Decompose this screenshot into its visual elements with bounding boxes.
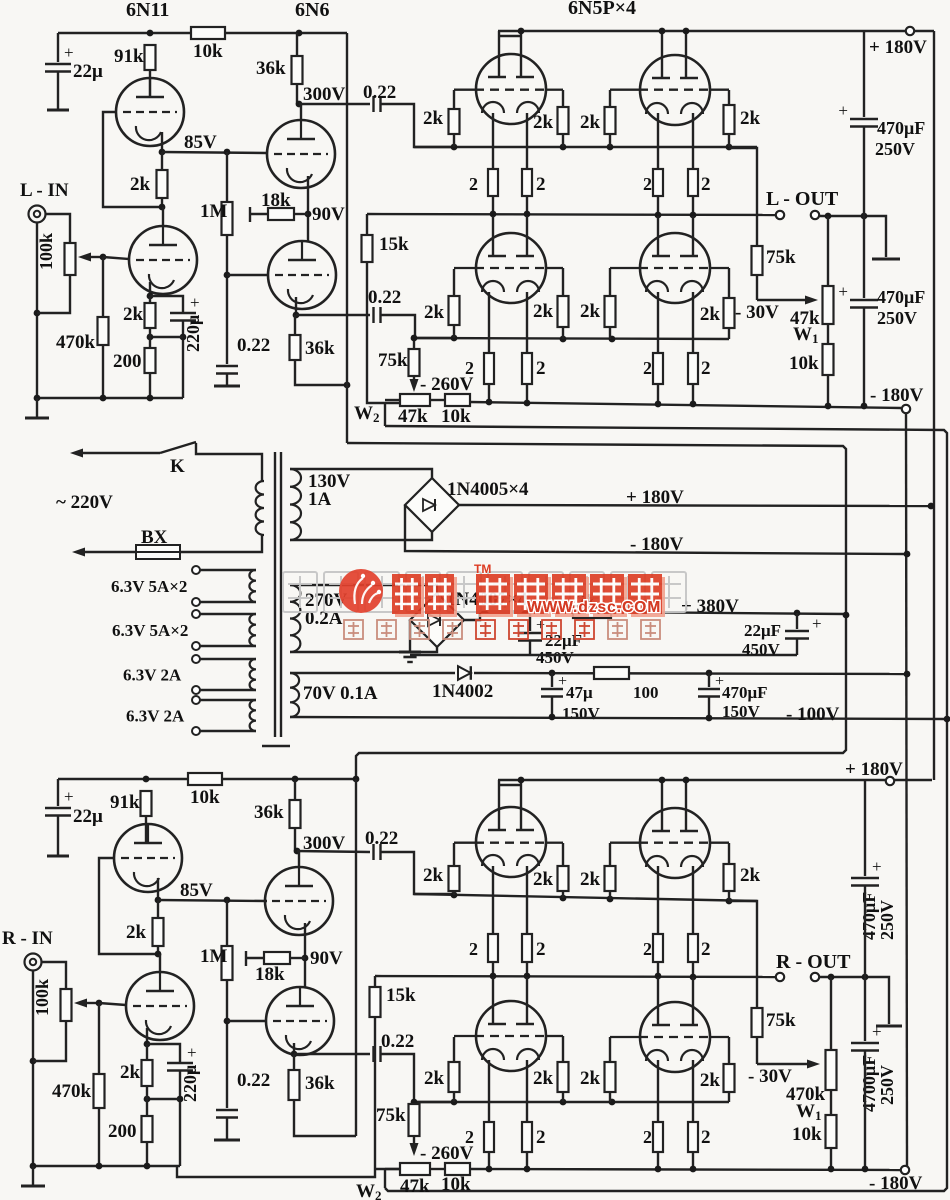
wire g3b (609, 134, 611, 147)
node Rg3/bus (607, 896, 614, 903)
wire L 36k1 bot (296, 84, 298, 104)
wire L gnd stem (36, 398, 38, 417)
wire bridge2 - out (409, 620, 411, 651)
svg-text:0.22: 0.22 (363, 82, 396, 103)
node Rg1/bus (451, 892, 458, 899)
winding filament 6.3V 2A (250, 700, 256, 731)
R W2 wiper arrow (413, 1136, 415, 1147)
svg-text:+: + (872, 1022, 882, 1041)
resistor R 18k L (268, 208, 294, 220)
terminal filament 6.3V 5A×2 (192, 566, 200, 574)
terminal filament 6.3V 2A (192, 655, 200, 663)
wire R cap1 top lead (864, 780, 866, 876)
resistor R 2k g3 L (605, 107, 616, 134)
wire RV4 grid left corner (609, 1037, 611, 1062)
svg-text:10k: 10k (792, 1124, 822, 1145)
terminal L-OUT b (811, 211, 819, 219)
svg-text:22μF: 22μF (744, 621, 781, 640)
svg-text:22μ: 22μ (73, 61, 103, 82)
wire R 36k2 top (293, 1054, 295, 1070)
svg-text:1N4002: 1N4002 (432, 681, 493, 702)
terminal L-OUT a (776, 211, 784, 219)
wire R grid bus upper (414, 894, 757, 901)
terminal R-OUT a (776, 973, 784, 981)
wire L 75k left top (413, 338, 415, 349)
svg-text:75k: 75k (376, 1105, 406, 1126)
resistor R 2k g2b L (558, 296, 569, 327)
resistor R 2 Rb x693 (688, 1122, 698, 1152)
wire fil bot 6.3V 5A×2 (200, 645, 256, 647)
wire L cap2 top lead (863, 216, 865, 298)
wire fil top 6.3V 2A (200, 699, 256, 701)
wire 270V top loop (290, 585, 437, 593)
wire R 36k1 top (294, 779, 296, 800)
wire L 2k2 top (149, 296, 151, 303)
node c1/bus (490, 211, 497, 218)
wire psu 47u top (551, 673, 553, 687)
resistor R 10k R (188, 773, 222, 785)
svg-text:47k: 47k (398, 406, 428, 427)
resistor POT 100k L (65, 243, 76, 275)
resistor R 2 Rb x527 (522, 1122, 532, 1152)
capacitor C 22u R (45, 807, 71, 810)
wire V3 plate lead x527 (526, 216, 528, 256)
svg-text:10k: 10k (190, 787, 220, 808)
node L gnd/jack (34, 395, 41, 402)
node R rail/feed (353, 776, 360, 783)
svg-text:470k: 470k (52, 1081, 92, 1102)
wire RV3 plate lead x493 (492, 977, 494, 1024)
wire psu cap2 bot (796, 639, 798, 655)
wire L cap2 bot lead (863, 308, 865, 406)
node Rrail/V1 (518, 777, 525, 784)
svg-text:1M: 1M (200, 946, 228, 967)
svg-text:47μ: 47μ (566, 683, 593, 702)
wire R 1M top (226, 900, 228, 946)
node g3b/bus (609, 336, 616, 343)
capacitor C 0.22 L gnd (216, 365, 238, 368)
resistor R 2k g1 R (449, 866, 460, 891)
wire R 2k2-200 node (147, 1098, 180, 1100)
svg-text:- 30V: - 30V (735, 302, 779, 323)
node L gnd/200 (147, 395, 154, 402)
wire RV2 grid left corner (609, 843, 611, 866)
wire L cap1 bot lead (863, 127, 865, 216)
wire g4b (728, 134, 730, 147)
node w2/2ohm3 (655, 401, 662, 408)
wire L 2k2 bot (149, 328, 151, 348)
node Rrail/V2a (659, 777, 666, 784)
svg-text:R - OUT: R - OUT (776, 951, 851, 973)
resistor R 2 Lb x527 (522, 353, 532, 384)
power tube V4 R lower-right (640, 1002, 710, 1072)
wire R gnd stem (32, 1166, 34, 1185)
wire RV2 grid right corner (728, 843, 730, 864)
wire L jack to pot (45, 214, 70, 243)
wire RV3 grid right corner (562, 1036, 564, 1062)
wire Rg2b bot (562, 1092, 564, 1102)
node L 6N6b cath node (293, 312, 300, 319)
node g2b/bus (560, 336, 567, 343)
svg-text:2k: 2k (126, 922, 147, 943)
svg-text:6N5P×4: 6N5P×4 (568, 0, 636, 19)
wire Rg4b bot (728, 1092, 730, 1102)
svg-text:2k: 2k (580, 869, 601, 890)
wire RV cath lead x493 (492, 866, 494, 934)
resistor R 2 R x693 (688, 934, 698, 962)
input jack L-IN (29, 206, 46, 223)
watermark gray company text (283, 572, 317, 612)
wire V3 grid left corner (453, 269, 455, 296)
capacitor C 22uF 450V b (785, 630, 809, 633)
terminal L +180V (906, 27, 914, 35)
wire g3b bot (609, 327, 611, 339)
node couple2/75k (411, 335, 418, 342)
node Rc1/bus (490, 973, 497, 980)
wire R 6N6a plate (298, 851, 300, 867)
wire 130V bot loop (290, 532, 432, 540)
wire R cap1 bot lead (864, 886, 866, 977)
wire R cap2 bot lead (864, 1051, 866, 1169)
wire fil top 6.3V 5A×2 (200, 569, 256, 571)
wire R 22u top lead (57, 779, 59, 806)
wire L 10k bot (827, 375, 829, 406)
tube U 6N6b R (266, 987, 334, 1055)
node -100/lineA (944, 716, 950, 723)
svg-text:2k: 2k (580, 301, 601, 322)
wire K to primary (196, 443, 262, 481)
wire psu cap1 top (529, 612, 531, 631)
wire g2b (562, 134, 564, 147)
node -180/drop (904, 551, 911, 558)
svg-text:2: 2 (643, 358, 652, 378)
wire RV cath bot x527 (526, 962, 528, 977)
node 1M tap R (224, 897, 231, 904)
ground L 22u (47, 109, 69, 112)
ground psu (399, 651, 421, 654)
wire L 18k wire (250, 213, 268, 215)
wire g4b bot (728, 328, 730, 339)
svg-text:2k: 2k (123, 304, 144, 325)
terminal R -180V (901, 1166, 909, 1174)
wire L 200 bot (149, 373, 151, 398)
wire RV34 cath lead x693 (692, 1060, 694, 1122)
wire L 0.22gnd bot (226, 374, 228, 386)
power tube V1 R upper-left (476, 807, 546, 877)
svg-text:+: + (838, 282, 848, 301)
svg-text:+: + (190, 293, 200, 312)
node -100/470u (706, 715, 713, 722)
potentiometer W2 L 47k (400, 394, 430, 406)
wire Rg2 bot (562, 891, 564, 898)
wire g1b bot (453, 325, 455, 338)
wire L wiper to grid (103, 257, 129, 259)
node L gnd/470k (100, 395, 107, 402)
wire R 6N6b grid wire (227, 1020, 266, 1022)
svg-text:90V: 90V (312, 204, 345, 225)
ground L 0.22 (214, 385, 240, 388)
node c4/bus (690, 212, 697, 219)
wire R 2k2 bot (146, 1086, 148, 1116)
node L rail/36k (296, 30, 303, 37)
node bus/10k (825, 403, 832, 410)
wire L grid bus upper (414, 146, 757, 148)
wire -180V drop to R channel (906, 413, 907, 1166)
bridge rectifier 1N4005x4 (405, 478, 459, 532)
wire R 0.22gnd bot (226, 1118, 228, 1140)
capacitor C 0.22 L couple1 (372, 96, 374, 112)
svg-text:470μF: 470μF (877, 118, 925, 138)
wire L 300V coupling (299, 103, 370, 105)
node g1/bus (451, 144, 458, 151)
wire RV2 right plate lead (685, 780, 687, 831)
resistor R 2k g1b L (449, 296, 460, 325)
transformer core (274, 452, 276, 737)
node boost/-180drop (904, 671, 911, 678)
wire V2 grid right corner (728, 90, 730, 105)
wire R 36k2 bot (294, 1100, 356, 1136)
wire L W1 top (827, 216, 829, 286)
wire R 22u bot lead (57, 816, 59, 856)
svg-text:+ 380V: + 380V (681, 596, 739, 617)
svg-text:~ 220V: ~ 220V (56, 492, 113, 513)
svg-text:2k: 2k (580, 112, 601, 133)
core end bar (262, 745, 290, 747)
wire RV cath bot x493 (492, 962, 494, 977)
svg-text:470μF: 470μF (722, 683, 768, 702)
resistor R 470k L (98, 317, 109, 345)
wire L 6N6b grid wire (227, 274, 268, 276)
wire L grid bus lower (415, 338, 729, 339)
svg-text:450V: 450V (536, 648, 575, 667)
wire R B+ rail (58, 778, 356, 780)
wire R 200 bot (146, 1142, 148, 1166)
wire R 15k top (374, 976, 376, 987)
wire V cath lead x658 (657, 113, 659, 169)
node L 1M/6N6b grid (224, 272, 231, 279)
wire L 75k to wiper (756, 275, 758, 300)
svg-text:+: + (872, 857, 882, 876)
resistor R 75k L right (752, 246, 763, 275)
node rail/V2a (659, 28, 666, 35)
resistor R 2 Lb x693 (688, 353, 698, 384)
svg-text:2: 2 (536, 1127, 546, 1148)
wire L 220u bot (182, 321, 184, 398)
wire RV1 left plate lead (498, 780, 500, 830)
watermark slogan row (344, 620, 363, 639)
node 300V R (294, 848, 301, 855)
wire V34 cath bot x693 (692, 384, 694, 403)
svg-text:0.22: 0.22 (368, 287, 401, 308)
wire V4 grid right corner (728, 268, 730, 298)
power tube V2 R upper-right (640, 808, 710, 878)
resistor R 36k R1 (290, 800, 301, 828)
wire RV cath bot x693 (692, 962, 694, 977)
node Rw2/2ohm2 (524, 1166, 531, 1173)
wire L gnd bus (37, 397, 183, 399)
wire L out bus right (819, 216, 886, 257)
wire R 10k bot (830, 1148, 832, 1169)
wire R couple2 wire (294, 1053, 370, 1055)
svg-text:2k: 2k (424, 1068, 445, 1089)
svg-text:250V: 250V (877, 308, 917, 328)
wire V34 cath lead x658 (657, 292, 659, 353)
node L potbot/jack (34, 310, 41, 317)
ground R 0.22 (214, 1139, 240, 1142)
wire RV34 cath bot x693 (692, 1152, 694, 1169)
wire R pot bottom (33, 1021, 66, 1061)
svg-text:2k: 2k (740, 865, 761, 886)
node R potbot/jack (30, 1058, 37, 1065)
node g1b/bus (451, 335, 458, 342)
wire L 6N6b cath (295, 297, 297, 315)
svg-text:2k: 2k (130, 174, 151, 195)
wire V2 left plate lead (661, 31, 663, 78)
svg-text:2: 2 (469, 174, 478, 194)
watermark red title characters (392, 574, 424, 617)
wire R 470k bot (98, 1108, 100, 1166)
wire V1 plate jog (499, 35, 521, 37)
node Rbus/W1 (828, 974, 835, 981)
resistor R 2k R cath2 (142, 1060, 153, 1086)
wire R 6N6a cath (304, 923, 306, 958)
wire RV1 grid left corner (453, 843, 455, 866)
resistor R 10k L W2 (445, 394, 470, 406)
wire L 90V drop (307, 214, 309, 241)
resistor R 2 R x658 (653, 934, 663, 962)
terminal R-OUT b (811, 973, 819, 981)
svg-text:250V: 250V (877, 1065, 897, 1105)
svg-text:+: + (812, 614, 822, 633)
svg-text:75k: 75k (766, 1010, 796, 1031)
wire RV3 plate lead x527 (526, 977, 528, 1024)
tube U 6N11b R (126, 972, 194, 1040)
svg-text:K: K (170, 456, 185, 477)
wire psu cap1 bot (529, 641, 531, 655)
svg-text:90V: 90V (310, 948, 343, 969)
svg-text:L - OUT: L - OUT (766, 188, 839, 210)
resistor R 2k g4 L (724, 105, 735, 134)
wire R 2k1 bot (157, 946, 159, 954)
input jack R-IN (25, 954, 42, 971)
wire R W1 bot (830, 1090, 832, 1115)
svg-text:+: + (64, 787, 74, 806)
svg-text:2: 2 (536, 358, 546, 379)
resistor R 2k L cath1 (157, 170, 168, 198)
wire L 2k1 leads (161, 152, 163, 170)
L W1 wiper arrow (757, 299, 809, 301)
wire V34 cath bot x489 (488, 384, 490, 403)
fuse BX (136, 545, 180, 559)
resistor R 75k L left (409, 349, 420, 376)
resistor R 2k psu (573, 606, 611, 618)
wire R -180 bus (470, 1169, 901, 1170)
node Rc4/bus (690, 974, 697, 981)
wire L 6N6a cath (307, 176, 309, 214)
wire L -180 bus (470, 402, 901, 408)
resistor POT 47k W1 L (823, 286, 834, 324)
node Rg1b/bus (451, 1099, 458, 1106)
wire L couple1 out (381, 104, 453, 147)
bridge rectifier 1N4007x4 (410, 593, 464, 647)
svg-text:47k: 47k (400, 1176, 430, 1197)
wire fil bot 6.3V 2A (200, 689, 256, 691)
switch K (160, 442, 196, 453)
capacitor C 470uF 150V (698, 688, 720, 691)
wire V34 cath lead x527 (526, 292, 528, 353)
wire line B (+380V riser) (347, 443, 846, 779)
svg-text:+: + (187, 1043, 197, 1062)
resistor R 10k L W1 (823, 344, 834, 375)
node Rw2/2ohm1 (486, 1166, 493, 1173)
node rail/V2b (683, 28, 690, 35)
resistor R 2 Rb x658 (653, 1122, 663, 1152)
node 1M tap L (224, 149, 231, 156)
wire RV cath lead x527 (526, 866, 528, 934)
node Rg2/bus (560, 895, 567, 902)
svg-text:L - IN: L - IN (20, 180, 69, 201)
grid stopper bar L 18k (249, 207, 251, 222)
ground L out (872, 258, 900, 261)
svg-text:70V 0.1A: 70V 0.1A (303, 683, 378, 704)
node bus/cap (861, 213, 868, 220)
node Rc2/bus (524, 973, 531, 980)
wire L 91k bot lead (149, 70, 151, 78)
resistor R 2 Lb x658 (653, 353, 663, 384)
node 470u tap (706, 670, 713, 677)
wire -180 boost line (474, 673, 905, 674)
wire RV cath lead x693 (692, 866, 694, 934)
wire L couple2 out (381, 315, 454, 338)
resistor R 10k R W2 (445, 1163, 470, 1175)
wire L 15k top (366, 214, 368, 235)
node L 2k2/200 (147, 334, 154, 341)
wire R gnd bus (33, 1165, 180, 1167)
node Rbus/cap (862, 974, 869, 981)
wire V cath lead x693 (692, 113, 694, 169)
svg-text:85V: 85V (184, 132, 217, 153)
node w2/2ohm2 (524, 400, 531, 407)
wire R 75k to wiper (756, 1037, 758, 1064)
wire -180V psu line (405, 505, 904, 554)
svg-text:470k: 470k (56, 332, 96, 353)
svg-text:+ 180V: + 180V (626, 487, 684, 508)
node Rg3b/bus (609, 1099, 616, 1106)
wire Rg1b bot (453, 1092, 455, 1102)
wire L w2 left (385, 399, 400, 401)
resistor R 2 Lb x489 (484, 353, 494, 384)
svg-text:10k: 10k (193, 41, 223, 62)
capacitor C 22uF 450V a (518, 632, 542, 635)
node Rw2/2ohm3 (655, 1166, 662, 1173)
R W1 wiper arrow (757, 1063, 811, 1065)
wire V34 cath lead x489 (488, 292, 490, 353)
wire Rg1 bot (453, 891, 455, 895)
wire R 6N11b plate lead (159, 954, 161, 973)
wire Rg4 bot (728, 891, 730, 901)
wire fil bot 6.3V 5A×2 (200, 601, 256, 603)
wire L 6N6a plate (300, 104, 302, 120)
capacitor C 0.22 L couple2 (372, 307, 374, 323)
node R 6N6b cath node (291, 1051, 298, 1058)
node R 2k1/fb (155, 951, 162, 958)
winding filament 6.3V 5A×2 (249, 570, 256, 602)
wire V cath bot x693 (692, 196, 694, 216)
wire RV1 plate jog (499, 784, 521, 786)
resistor R 10k R W1 (826, 1115, 837, 1148)
resistor R 2k g4b R (724, 1064, 735, 1092)
svg-text:- 260V: - 260V (420, 374, 474, 395)
